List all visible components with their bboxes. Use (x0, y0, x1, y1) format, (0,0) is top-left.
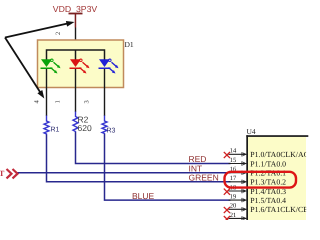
pin 21 of U4 (partially visible) (229, 212, 247, 220)
svg-text:19: 19 (230, 194, 237, 201)
resistor R3 (102, 116, 116, 135)
annotation arrow to D1 pin 4 wire (5, 38, 44, 99)
green LED D1a (41, 59, 61, 74)
svg-text:GREEN: GREEN (189, 173, 219, 183)
svg-text:T: T (0, 169, 5, 178)
pin 15 P1.1/TA0.0 of U4 (229, 157, 287, 168)
red LED D1b (70, 59, 90, 74)
svg-text:R1: R1 (51, 127, 60, 134)
IC U4 body (246, 127, 308, 221)
power port VDD_3P3V (53, 4, 98, 28)
svg-text:21: 21 (230, 212, 237, 219)
no-ERC cross on pin 20 (224, 207, 230, 213)
pin 20 P1.6/TA1CLK/CBOUT of U4 (229, 203, 320, 214)
wire anode bus inside D1 (47, 50, 105, 60)
svg-text:14: 14 (230, 148, 237, 155)
svg-text:P1.3/TA0.2: P1.3/TA0.2 (250, 178, 286, 187)
pin 19 P1.5/TA0.4 of U4 (229, 194, 287, 205)
blue LED D1c (99, 59, 119, 74)
svg-text:R3: R3 (107, 128, 116, 135)
LED package D1 body (38, 40, 134, 88)
svg-text:P1.1/TA0.0: P1.1/TA0.0 (250, 159, 286, 168)
svg-text:P1.6/TA1CLK/CBOUT: P1.6/TA1CLK/CBOUT (250, 205, 320, 214)
no-ERC cross on pin 18 (224, 189, 230, 195)
svg-text:1: 1 (55, 100, 62, 103)
wire VDD vertical to D1 (75, 28, 76, 52)
svg-text:D1: D1 (125, 40, 134, 49)
wire GREEN net from R1 to pin 17 (47, 135, 231, 182)
pin 14 P1.0/TA0CLK/ACLK of U4 (229, 148, 320, 159)
svg-text:P1.5/TA0.4: P1.5/TA0.4 (250, 196, 286, 205)
svg-text:VDD_3P3V: VDD_3P3V (53, 4, 98, 14)
svg-text:U4: U4 (247, 127, 256, 136)
wire BLUE net from R3 to pin 19 (105, 134, 231, 200)
no-ERC cross on pin 21 (224, 216, 230, 222)
red highlight box around P1.3/TA0.2 (225, 172, 297, 188)
wire INT net from port to pin 16 (18, 172, 231, 174)
svg-text:2: 2 (55, 32, 62, 35)
pin 17 P1.3/TA0.2 of U4 (229, 175, 287, 186)
svg-text:17: 17 (230, 175, 237, 182)
port T (INT) at left edge (0, 169, 18, 178)
svg-text:P1.0/TA0CLK/ACLK: P1.0/TA0CLK/ACLK (250, 150, 319, 159)
pin 18 P1.4/TA0.3 of U4 (229, 184, 287, 195)
wire cathode leads below LEDs (46, 69, 105, 116)
resistor R1 (44, 116, 60, 135)
svg-text:4: 4 (34, 100, 41, 104)
no-ERC cross on pin 14 (224, 152, 230, 158)
svg-text:15: 15 (230, 157, 237, 164)
svg-text:20: 20 (230, 203, 237, 210)
svg-text:620: 620 (78, 123, 92, 133)
resistor R2 620 (73, 112, 92, 134)
pin 16 P1.2/TA0.1 of U4 (229, 166, 287, 177)
wire RED net from R2 to pin 15 (76, 132, 231, 164)
svg-text:3: 3 (84, 100, 91, 103)
annotation arrow to VDD wire (5, 21, 75, 38)
svg-text:BLUE: BLUE (132, 191, 155, 201)
